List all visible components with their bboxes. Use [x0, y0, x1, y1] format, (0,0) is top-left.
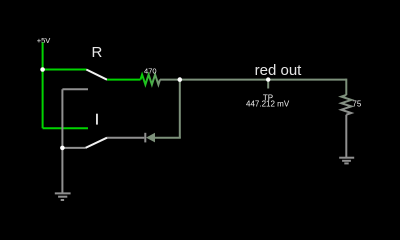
wire: switch I to ground column: [62, 147, 85, 149]
label I: [96, 114, 98, 125]
svg-text:red out: red out: [255, 62, 303, 79]
wire: 5V horizontal to switch R: [43, 69, 87, 71]
wire: ground vertical column: [61, 89, 63, 192]
resistor R1 470 zigzag: [141, 75, 161, 85]
wire: node red out horizontal: [160, 79, 346, 81]
test point TP tick: [267, 80, 269, 89]
junction at ground node: [60, 146, 65, 151]
ground symbol left: [55, 193, 71, 200]
wire: +5V rail vertical: [42, 43, 44, 129]
wire: switch R to resistor 470: [107, 79, 141, 81]
resistor R2 75 zigzag: [341, 95, 351, 115]
test point TP dot: [266, 77, 270, 81]
diode D1 cathode bar: [144, 133, 146, 143]
wire: diode cathode to switch I: [107, 137, 144, 139]
ground symbol right: [339, 158, 354, 164]
wire: diode anode horizontal: [155, 137, 181, 139]
wire: down to resistor 75: [345, 79, 347, 95]
svg-text:447.212 mV: 447.212 mV: [246, 99, 290, 108]
switch R blade: [86, 70, 107, 80]
diode D1 triangle: [146, 133, 155, 143]
svg-text:75: 75: [352, 100, 361, 109]
svg-text:R: R: [92, 44, 103, 61]
junction at resistor output node: [178, 77, 183, 82]
junction at +5V node: [40, 67, 45, 72]
wire: resistor 75 to ground: [345, 115, 347, 157]
wire: ground branch horizontal top: [62, 88, 88, 90]
wire: node vertical to diode: [179, 80, 181, 138]
svg-text:470: 470: [144, 66, 157, 75]
wire: coil feed green horizontal: [43, 127, 88, 129]
switch I blade: [86, 138, 108, 148]
